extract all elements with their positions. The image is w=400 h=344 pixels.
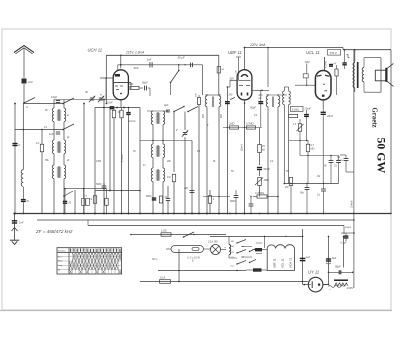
wire drop x121 low: [121, 125, 123, 214]
plate electrolytic: [334, 279, 348, 281]
resistor osc foot: [159, 196, 167, 203]
rail 40V: [118, 65, 203, 95]
box TW2: [328, 50, 341, 56]
wire UCL cathode: [322, 100, 324, 109]
wire UCL grid: [295, 84, 315, 86]
wire UCL anode: [325, 57, 328, 70]
capacitor dark row: [304, 115, 309, 117]
wire UY out: [323, 236, 329, 285]
resistor 0.7M right: [306, 140, 314, 184]
coil osc L5b: [163, 144, 165, 158]
svg-text:0,1A 19V: 0,1A 19V: [208, 241, 218, 244]
svg-text:5000: 5000: [146, 195, 152, 198]
svg-text:1M: 1M: [317, 176, 320, 178]
dial lamp assembly: [152, 246, 204, 261]
box TW2 bottom: [291, 107, 304, 112]
rail 215V: [106, 50, 225, 104]
wire x331 low: [330, 167, 332, 184]
wire y281 bottom: [140, 281, 308, 283]
switch band left 2: [15, 124, 74, 130]
switch on rail: [170, 65, 180, 95]
resistor 0.1A: [160, 276, 171, 284]
label 280: [258, 95, 264, 100]
switch cluster stubs: [241, 243, 262, 258]
resistor dark heat2: [246, 268, 267, 271]
svg-text:0,1μF: 0,1μF: [341, 242, 348, 245]
tube UY11 internals: [309, 281, 320, 288]
capacitor 1uF right: [300, 256, 311, 261]
wire speaker rail: [343, 48, 391, 51]
label 86V: [303, 60, 310, 78]
wire L6 core: [156, 169, 160, 181]
capacitor 20 left: [63, 189, 72, 215]
svg-text:12pF: 12pF: [51, 95, 57, 99]
wire h y140 right: [289, 140, 308, 141]
resistor x106 foot: [84, 189, 109, 215]
ground symbol: [10, 214, 19, 244]
wire x179: [178, 249, 180, 282]
label 1,5mA: [120, 154, 124, 162]
label 5,5mA: [349, 200, 353, 208]
wire h y155 right: [300, 155, 339, 156]
wire drop x95: [94, 108, 96, 215]
svg-text:20mF: 20mF: [326, 115, 334, 118]
tube UCH11: [88, 47, 129, 100]
potentiometer right: [293, 119, 304, 156]
capacitor 50nF det: [300, 184, 309, 215]
capacitor 1nF rail: [147, 57, 153, 67]
svg-text:100: 100: [184, 187, 189, 190]
svg-text:1nF: 1nF: [147, 57, 152, 61]
wire gang line: [95, 107, 140, 109]
svg-text:50μF: 50μF: [250, 106, 256, 110]
speaker box: [375, 68, 387, 82]
wire IF2 drops: [267, 107, 279, 215]
wire heater top2: [210, 236, 303, 238]
wire drop x104: [103, 99, 105, 215]
wire drop x174: [173, 112, 175, 173]
wire rail to IF2: [267, 47, 269, 87]
capacitor 50uF rail: [178, 55, 193, 67]
svg-text:4000V: 4000V: [337, 159, 344, 162]
capacitor antenna 1nF: [22, 79, 34, 85]
svg-text:50 μF: 50 μF: [178, 55, 185, 59]
switch mains: [183, 232, 195, 238]
capacitor 50nF UCH: [142, 82, 150, 97]
wire drop x192: [191, 141, 193, 215]
svg-text:Kurz: Kurz: [58, 256, 62, 258]
svg-text:U 2 x 10 W: U 2 x 10 W: [188, 257, 201, 260]
wire left drop x15: [14, 103, 16, 215]
wire L3 to bus: [53, 179, 65, 215]
capacitor 50mF: [257, 168, 270, 177]
coil IF3 b: [284, 87, 290, 184]
wire drop x84: [83, 103, 85, 215]
wire UCH anode: [120, 55, 122, 69]
capacitor 10nF UCH: [107, 102, 114, 109]
wire IF3a drop: [284, 87, 286, 184]
capacitor 0.1uF top ps: [341, 232, 355, 244]
svg-text:5000: 5000: [230, 200, 236, 203]
transformer primary: [353, 50, 355, 92]
svg-text:4,2mA: 4,2mA: [325, 61, 328, 68]
svg-text:280: 280: [258, 95, 264, 97]
capacitor 12pF trimmer: [51, 95, 60, 103]
wire h y183 right: [284, 183, 338, 184]
svg-text:UCL 11: UCL 11: [281, 258, 285, 268]
wire top-left node: [24, 103, 63, 105]
capacitor osc foot2: [166, 186, 170, 214]
svg-text:1nF: 1nF: [19, 221, 24, 225]
capacitor antenna foot: [21, 200, 30, 203]
capacitor 50uF ps: [328, 265, 354, 274]
capacitor 10nF below UCH: [111, 107, 113, 109]
resistor 50k: [120, 108, 123, 126]
capacitor UBF left: [225, 102, 230, 104]
wire L2 core: [57, 141, 61, 153]
wire IF2 core: [272, 97, 273, 108]
wire L4 core: [156, 112, 160, 124]
capacitor 0.1 det: [317, 184, 326, 215]
capacitor 1nF gnd: [12, 221, 24, 225]
capacitor osc pad: [49, 132, 60, 136]
svg-text:A: A: [25, 105, 28, 109]
label lamp: [188, 257, 201, 263]
capacitor dark mid: [126, 107, 130, 215]
resistor 2M det: [284, 178, 293, 215]
wire IF1 tops: [205, 94, 221, 95]
wire ps links: [323, 236, 344, 286]
switch wave band: [63, 191, 73, 197]
svg-text:0,7MΩ: 0,7MΩ: [246, 123, 254, 126]
wire x302 drop: [302, 229, 308, 285]
label 600a: [203, 113, 205, 118]
svg-text:2kΩ: 2kΩ: [128, 82, 134, 86]
capacitor 5000pF left: [96, 183, 106, 191]
wire UBF cathode: [244, 100, 246, 215]
label 0,2mA: [128, 119, 136, 123]
wire heater top: [130, 234, 226, 236]
resistor 1.8 ohm: [161, 229, 171, 237]
wire y270: [158, 270, 246, 272]
svg-text:3,4mA: 3,4mA: [349, 200, 353, 208]
coil IF1 b: [219, 96, 221, 107]
tube UCL11: [306, 50, 331, 100]
svg-text:0,25MΩ: 0,25MΩ: [255, 192, 264, 195]
antenna: [14, 46, 34, 54]
svg-text:50 GW: 50 GW: [375, 138, 389, 174]
wire feedback y220: [37, 219, 354, 221]
transformer secondary: [362, 58, 364, 92]
wire L1 core: [57, 109, 61, 121]
coil antenna L2b: [64, 140, 66, 154]
coil antenna L3b: [64, 165, 66, 179]
svg-text:50μF: 50μF: [142, 82, 148, 85]
svg-text:1nF: 1nF: [28, 80, 33, 84]
resistor 2M: [228, 123, 239, 130]
wire drop x75: [74, 190, 76, 214]
capacitor 100pF: [184, 187, 194, 193]
potentiometer 1M: [255, 178, 269, 197]
capacitor top right: [342, 50, 349, 69]
svg-text:pF: pF: [258, 98, 262, 100]
capacitor 0.1 4000V: [337, 155, 348, 164]
wire mid-right drops: [299, 141, 301, 156]
label 25000: [344, 227, 352, 229]
resistor dark heat1: [252, 248, 267, 251]
tube UCL11 internals: [317, 75, 330, 97]
svg-text:~: ~: [329, 287, 331, 291]
svg-text:30 m: 30 m: [152, 258, 158, 261]
svg-text:1,8Ω: 1,8Ω: [161, 229, 167, 233]
wire h y196 mid: [203, 196, 230, 197]
svg-text:Lang: Lang: [58, 265, 62, 267]
svg-text:0,1A: 0,1A: [160, 276, 166, 280]
svg-text:8μF: 8μF: [332, 257, 337, 260]
speaker frame: [364, 58, 381, 92]
resistor 2k UCH: [128, 82, 144, 90]
wire L1 bottoms: [54, 122, 64, 140]
svg-text:Ω: Ω: [19, 145, 21, 147]
wire L4 bottoms: [153, 125, 163, 144]
svg-text:240: 240: [228, 94, 234, 97]
capacitor 50uF UBF: [250, 90, 263, 127]
capacitor 20mF UCL: [321, 109, 334, 184]
svg-text:220V: 220V: [346, 286, 353, 290]
svg-text:2MΩ: 2MΩ: [228, 123, 234, 126]
svg-text:220V, 4mA: 220V, 4mA: [249, 43, 266, 47]
svg-text:2M: 2M: [284, 186, 288, 189]
choke heater: [225, 236, 237, 258]
resistor 0.1M row: [289, 114, 298, 117]
switch osc 2: [187, 107, 198, 113]
wire h mix: [140, 140, 192, 141]
wire UBF grid left: [230, 78, 238, 88]
trimmer cap C osc: [85, 91, 95, 102]
wire L5 core: [156, 145, 160, 157]
wire L3 core: [57, 166, 61, 178]
switch cluster: [236, 240, 256, 265]
tube UCH grid2 wire: [130, 83, 132, 90]
switch osc 1: [173, 106, 185, 112]
wire x264 stub: [264, 236, 266, 248]
coil IF3 a: [283, 91, 285, 105]
wire h y127: [223, 127, 262, 128]
tube UY11: [308, 270, 323, 292]
wire antenna lead: [23, 49, 25, 102]
svg-text:1MΩ: 1MΩ: [264, 179, 269, 182]
wire L6 to bus: [152, 182, 164, 215]
choke antenna: [21, 170, 23, 187]
resistor foot x210: [208, 190, 215, 214]
svg-text:1nF: 1nF: [49, 132, 54, 136]
resistor 1M osc: [167, 174, 176, 214]
capacitor foot x251: [249, 196, 254, 214]
svg-text:50n: 50n: [300, 192, 305, 195]
wire UCH grid left: [100, 77, 113, 99]
transformer core: [357, 62, 359, 88]
svg-text:50mF: 50mF: [264, 168, 271, 171]
coil osc L5a: [151, 144, 153, 158]
svg-text:UBF 11: UBF 11: [273, 258, 277, 268]
svg-text:50μF: 50μF: [335, 265, 341, 268]
svg-text:25000: 25000: [344, 227, 352, 229]
svg-text:Schalter: Schalter: [58, 250, 66, 253]
svg-text:4pF: 4pF: [164, 104, 169, 107]
mains zigzag: [329, 283, 354, 291]
trimmer padder: [176, 129, 188, 137]
svg-text:UCH 11: UCH 11: [289, 258, 293, 268]
svg-text:kΩ: kΩ: [262, 149, 265, 152]
svg-text:UCL 11: UCL 11: [306, 50, 320, 55]
svg-text:2U.: 2U.: [231, 266, 235, 268]
wire osc top: [147, 110, 168, 112]
resistor 25k: [258, 128, 266, 166]
wire antenna drop x23: [22, 104, 24, 215]
coil osc L6a: [151, 168, 153, 182]
wire IF2 tops: [266, 94, 287, 95]
switch band left: [62, 98, 74, 104]
resistor 0.1M left: [89, 191, 97, 204]
capacitor 5000 osc: [146, 195, 156, 200]
wire L2 bottoms: [54, 154, 64, 165]
resistor 0.7M: [246, 123, 256, 130]
label 20mF mid: [304, 108, 312, 111]
label speckle group: [44, 110, 320, 178]
svg-text:MΩ: MΩ: [311, 148, 315, 151]
switch UBF: [228, 94, 236, 100]
resistor UCL right: [335, 65, 338, 95]
svg-text:92V: 92V: [230, 78, 235, 81]
label ZF: [35, 229, 73, 234]
coil IF2 b: [278, 96, 280, 107]
resistor left 0.1M: [36, 129, 44, 214]
coil osc L4b: [163, 111, 165, 125]
coil antenna L1a: [52, 108, 54, 122]
tube UBF11: [228, 50, 252, 100]
tube UCH11 internals: [114, 74, 130, 94]
table band switch: [57, 248, 122, 274]
heater labels: [273, 258, 293, 268]
coil antenna L3a: [52, 165, 54, 179]
resistor 40k: [112, 108, 121, 214]
wire ground bus: [13, 212, 391, 214]
capacitor 8uF: [326, 257, 337, 264]
resistor 0.25M: [253, 192, 279, 198]
svg-text:ZF = 468/472 kHz: ZF = 468/472 kHz: [35, 229, 73, 234]
capacitor pair 0,5: [82, 189, 90, 214]
rail 220V: [245, 43, 344, 48]
svg-text:Mittel: Mittel: [58, 260, 63, 263]
resistor 200 IF1: [196, 93, 201, 215]
tube UBF11 internals: [239, 75, 251, 96]
coil IF2 a: [266, 96, 268, 107]
svg-text:1μF: 1μF: [306, 256, 311, 259]
wire IF1 core: [212, 97, 213, 108]
wire h y188 left: [64, 188, 84, 190]
wire feedback y225: [88, 220, 344, 234]
svg-text:UBF 11: UBF 11: [228, 50, 242, 55]
label 62mA: [240, 144, 244, 151]
svg-text:1M.: 1M.: [231, 241, 235, 243]
svg-text:86V: 86V: [305, 60, 310, 64]
wire x306 drop: [306, 110, 308, 140]
svg-text:1,5mA: 1,5mA: [120, 154, 124, 162]
svg-text:200: 200: [196, 93, 198, 98]
lamp bulb: [204, 241, 227, 255]
switch antenna: [23, 98, 35, 110]
wire UBF anode: [244, 47, 246, 70]
wire x346 stub: [340, 155, 354, 172]
wire coil top link: [54, 100, 125, 109]
trimmer cap C ant: [98, 94, 104, 102]
svg-text:62mA: 62mA: [240, 144, 244, 151]
svg-text:0,2mA: 0,2mA: [128, 119, 136, 123]
capacitor left x15: [12, 144, 20, 148]
title Graetz: [371, 108, 378, 128]
wire UCL left bias: [306, 64, 307, 86]
wire x354 drop: [353, 50, 355, 288]
svg-text:0,1: 0,1: [36, 142, 40, 145]
capacitor 50000 right: [324, 156, 333, 168]
wire L5 bottoms: [153, 158, 163, 168]
wire UBF grid feed: [236, 57, 242, 80]
svg-text:215V, 1,9mA: 215V, 1,9mA: [125, 50, 144, 54]
wire drop x110: [109, 108, 111, 191]
capacitor UCL top: [329, 63, 337, 66]
svg-text:TW 2: TW 2: [330, 51, 337, 55]
heater chain UBF UCL UCH: [267, 245, 294, 271]
svg-text:1M: 1M: [167, 176, 170, 179]
svg-text:UCH 11: UCH 11: [88, 47, 103, 52]
wire UCH cathode: [120, 99, 122, 107]
svg-text:20mF: 20mF: [304, 108, 312, 111]
svg-text:UY 11: UY 11: [308, 270, 319, 275]
coil antenna L1b: [64, 108, 66, 122]
svg-text:2M.: 2M.: [231, 246, 235, 248]
capacitor mid 5000: [230, 190, 238, 214]
wire x227 drop: [227, 86, 231, 214]
switch cluster labels: [231, 241, 236, 268]
svg-text:0,5M: 0,5M: [96, 161, 101, 163]
svg-text:0,1MΩ: 0,1MΩ: [292, 109, 299, 111]
wire rail drop x205: [198, 65, 200, 95]
speaker cone: [387, 63, 393, 86]
wire IF1 drops: [206, 107, 220, 215]
title 50 GW: [375, 138, 389, 174]
svg-text:Graetz: Graetz: [371, 108, 378, 128]
wire UBF diode out: [252, 90, 269, 92]
wire padder: [184, 112, 186, 215]
coil IF1 a: [205, 95, 207, 107]
label 600b: [221, 113, 223, 118]
coil osc L4a: [151, 111, 153, 125]
coil antenna L2a: [52, 140, 54, 154]
capacitor 4pF: [164, 104, 170, 112]
bus dots: [83, 213, 260, 215]
svg-text:5000: 5000: [96, 183, 102, 186]
wire drop x140: [139, 108, 141, 215]
coil osc L6b: [163, 168, 165, 182]
svg-text:10nF: 10nF: [107, 102, 113, 105]
wire right edge: [390, 50, 392, 215]
wire h y190 left: [95, 190, 140, 192]
capacitor 0.1uF right2: [334, 156, 341, 184]
